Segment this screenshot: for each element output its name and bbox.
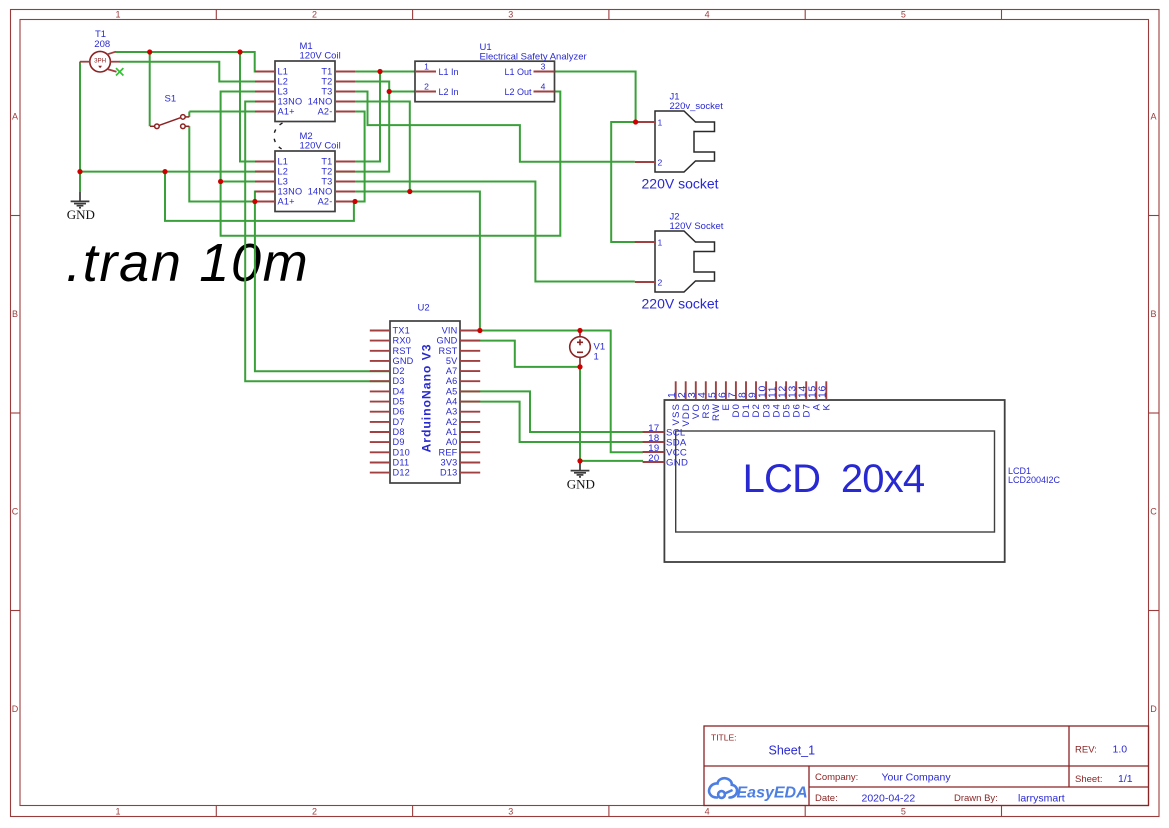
svg-text:RX0: RX0 [393,336,411,346]
U1 pin 3 [504,61,554,77]
svg-text:Your Company: Your Company [882,772,952,784]
svg-text:3V3: 3V3 [441,458,458,468]
node VIN [477,328,482,333]
svg-text:2: 2 [424,81,429,91]
wire M2.A1+ to U2.D2 [255,202,390,372]
svg-text:120V Coil: 120V Coil [300,141,341,152]
node T1 right [377,69,382,74]
svg-text:4: 4 [705,10,710,20]
node M2.L3 [218,179,223,184]
svg-text:L1: L1 [278,67,289,77]
wire U1 pin3 to J1 pin1 [555,72,656,123]
svg-text:D: D [12,704,19,714]
svg-text:RST: RST [393,346,412,356]
svg-text:L2 Out: L2 Out [504,87,532,97]
svg-text:2: 2 [658,158,663,168]
IC U2 ArduinoNano V3 body [390,321,460,483]
svg-text:RST: RST [439,346,458,356]
svg-text:120V Socket: 120V Socket [670,221,724,232]
wire T1 phaseB to M1.L2 [120,62,276,82]
svg-text:U2: U2 [418,303,430,314]
svg-text:REV:: REV: [1075,745,1097,756]
svg-text:1: 1 [658,238,663,248]
svg-text:D7: D7 [393,417,405,427]
connector J2 body [655,231,715,292]
M1 pin stubs [255,72,355,112]
svg-text:16: 16 [818,385,829,398]
svg-text:L1: L1 [278,157,289,167]
wire S1 upper to M1.A1+ [188,112,190,117]
node M2.A2- [352,199,357,204]
svg-text:T2: T2 [321,77,332,87]
svg-text:S1: S1 [165,94,177,105]
EasyEDA logo [709,778,737,798]
svg-text:2: 2 [312,10,317,20]
svg-text:Electrical Safety Analyzer: Electrical Safety Analyzer [480,52,587,63]
svg-text:2: 2 [658,278,663,288]
wire M2.A2- to M1.A2- [335,112,365,202]
svg-text:13NO: 13NO [278,187,303,197]
svg-text:208: 208 [94,39,110,50]
node T2-U1.2 [387,89,392,94]
svg-text:D13: D13 [440,468,457,478]
wire U2.A4 to LCD.SDA [460,402,643,442]
svg-text:13NO: 13NO [278,97,303,107]
svg-text:GND: GND [666,457,688,468]
M2 pin stubs [255,162,355,202]
svg-text:.tran 10m: .tran 10m [66,233,309,293]
contactor M2 body [275,151,335,212]
svg-text:larrysmart: larrysmart [1018,793,1065,805]
svg-text:ArduinoNano V3: ArduinoNano V3 [420,344,434,453]
svg-text:Sheet_1: Sheet_1 [769,744,816,758]
wire A2- chain [165,172,354,221]
svg-text:D9: D9 [393,437,405,447]
svg-text:A1+: A1+ [278,197,295,207]
svg-text:1.0: 1.0 [1113,744,1128,756]
svg-text:GND: GND [567,476,595,491]
svg-text:GND: GND [67,207,95,222]
switch S1 [150,115,189,129]
svg-text:A: A [1150,112,1156,122]
voltage source V1 [570,331,591,367]
M1 pin names [278,67,333,117]
svg-text:A1+: A1+ [278,107,295,117]
svg-text:D8: D8 [393,427,405,437]
frame row labels [12,112,1158,715]
U1 pin 4 [504,81,554,97]
svg-text:A: A [12,112,18,122]
wire M1.T3 to J1 pin2 [335,92,635,162]
svg-text:D10: D10 [393,447,410,457]
svg-text:A2-: A2- [318,107,333,117]
svg-text:A7: A7 [446,366,458,376]
svg-text:GND: GND [393,356,414,366]
svg-text:220V socket: 220V socket [642,296,719,312]
transformer T1 3PH source [80,51,120,72]
wire T1 neutral down to GND [79,62,81,192]
wire U2.GND to V1 minus [460,341,580,367]
wire M1.14NO down [335,102,410,192]
wire U2.A5 to LCD.SCL [460,391,643,432]
LCD1 inner screen [676,431,995,532]
wire GND rail to M2.L2 [80,171,275,173]
svg-text:T1: T1 [321,67,332,77]
svg-text:120V Coil: 120V Coil [300,51,341,62]
wire M1.T2 to M2.T2 [335,82,389,172]
svg-text:A3: A3 [446,407,458,417]
ground GND node 1 [71,192,90,208]
svg-text:TITLE:: TITLE: [711,733,737,743]
svg-text:1: 1 [594,352,599,363]
svg-text:2020-04-22: 2020-04-22 [862,793,916,805]
U1 pin 2 [415,81,459,97]
wire M2.L3 branch [221,181,275,183]
J2 pin stubs [635,242,655,282]
svg-text:1: 1 [658,118,663,128]
svg-text:L1 In: L1 In [439,67,459,77]
svg-text:Company:: Company: [815,772,858,783]
wire M1.T1 to U1 pin1 [335,71,415,73]
svg-text:L2: L2 [278,77,289,87]
svg-text:1: 1 [115,807,120,817]
frame column labels [115,10,905,817]
svg-text:A0: A0 [446,437,458,447]
svg-text:220v_socket: 220v_socket [670,101,724,112]
svg-text:3PH: 3PH [94,57,106,64]
wire S1 lower to M2.A1+ [189,126,275,201]
svg-text:L3: L3 [278,87,289,97]
svg-text:4: 4 [705,807,710,817]
svg-text:1/1: 1/1 [1118,773,1133,785]
wire T2 branch to U1 pin2 [389,91,415,93]
svg-text:T3: T3 [321,87,332,97]
wire GND2 to LCD.GND [580,460,643,462]
svg-text:3: 3 [508,807,513,817]
svg-text:Drawn By:: Drawn By: [954,793,998,804]
svg-text:5V: 5V [446,356,458,366]
op-amp U1 Electrical Safety Analyzer body [415,61,555,101]
svg-text:A4: A4 [446,397,458,407]
svg-text:D3: D3 [393,376,405,386]
svg-text:20: 20 [648,453,659,464]
svg-text:Date:: Date: [815,793,838,804]
LCD1 top pin stubs 1-16 [676,381,827,400]
svg-text:EasyEDA: EasyEDA [737,785,808,802]
svg-text:1: 1 [424,61,429,71]
svg-text:REF: REF [439,447,458,457]
svg-text:Sheet:: Sheet: [1075,774,1102,785]
M2 pin names [278,157,333,207]
title block [704,726,1149,806]
ground GND node 2 [571,461,590,477]
svg-text:L2: L2 [278,167,289,177]
svg-text:D6: D6 [393,407,405,417]
svg-text:A6: A6 [446,376,458,386]
wire T1 phaseA to S1 common [149,52,151,126]
node 14NO [407,189,412,194]
svg-text:LCD2004I2C: LCD2004I2C [1008,475,1061,485]
node V1 plus [577,328,582,333]
wire M2.13NO link [255,192,275,202]
U2 pin names [393,326,459,478]
connector J1 body [655,111,715,172]
node T1A-S1 [147,49,152,54]
J1 pin stubs [635,122,655,162]
svg-text:D2: D2 [393,366,405,376]
svg-text:D12: D12 [393,468,410,478]
contactor M1 body [275,61,335,122]
svg-text:220V socket: 220V socket [642,176,719,192]
node V1 minus [577,364,582,369]
wire J1 pin1 to J2 pin1 [611,122,655,242]
svg-text:3: 3 [541,61,546,71]
svg-text:A1: A1 [446,427,458,437]
wire M1.T1 to M2.T1 [335,72,380,162]
no-connect X on T1 phase C [116,68,123,75]
wire VIN to V1 plus to LCD.VCC [480,331,643,453]
svg-text:2: 2 [312,807,317,817]
wire M2.14NO to U2.VIN [335,192,480,331]
svg-text:3: 3 [508,10,513,20]
svg-text:B: B [1150,309,1156,319]
node J1.1 [633,119,638,124]
svg-text:5: 5 [901,10,906,20]
node GND2 [577,458,582,463]
svg-text:A2-: A2- [318,197,333,207]
node A2 chain [162,169,167,174]
svg-text:D4: D4 [393,386,405,396]
svg-text:GND: GND [436,336,457,346]
svg-text:1: 1 [115,10,120,20]
svg-text:L2 In: L2 In [439,87,459,97]
svg-text:L1 Out: L1 Out [504,67,532,77]
svg-text:14NO: 14NO [308,187,333,197]
svg-text:LCD 20x4: LCD 20x4 [743,457,925,501]
LCD1 LCD2004I2C outer body [664,400,1004,562]
node M2.A1+ [252,199,257,204]
svg-text:D11: D11 [393,458,410,468]
wire M2.T3 to J2 pin2 [335,182,635,282]
wire T1 phaseA to M1.L1 [116,52,276,72]
svg-text:A2: A2 [446,417,458,427]
svg-text:D: D [1150,704,1157,714]
LCD1 left pins 17-20 [643,432,665,462]
svg-text:5: 5 [901,807,906,817]
svg-text:TX1: TX1 [393,326,410,336]
wire T1 phaseA to M2.L1 [240,52,275,162]
svg-text:14NO: 14NO [308,97,333,107]
wire V1 minus down to GND2 [579,367,581,461]
wire M1.L3 to M2.L3 to U1 pin4 [221,92,561,236]
node GND rail [77,169,82,174]
LCD1 top pin names [671,403,833,427]
svg-text:T1: T1 [321,157,332,167]
svg-text:A5: A5 [446,386,458,396]
svg-text:C: C [12,507,19,517]
LCD1 top pin numbers [667,385,829,398]
svg-text:K: K [822,403,833,411]
wire M1.13NO to U2.D3 [245,102,390,382]
svg-text:B: B [12,309,18,319]
svg-text:T2: T2 [321,167,332,177]
node T1A-M2L1 [237,49,242,54]
U1 pin 1 [415,61,459,77]
svg-text:T3: T3 [321,177,332,187]
U2 pin stubs [370,331,480,473]
wire S1 upper to M1.A1+ run [189,111,275,113]
mechanical interlock dashed link M1-M2 [274,123,284,150]
svg-text:C: C [1150,507,1157,517]
svg-text:D5: D5 [393,397,405,407]
svg-text:4: 4 [541,81,546,91]
svg-text:L3: L3 [278,177,289,187]
svg-text:VIN: VIN [442,326,458,336]
